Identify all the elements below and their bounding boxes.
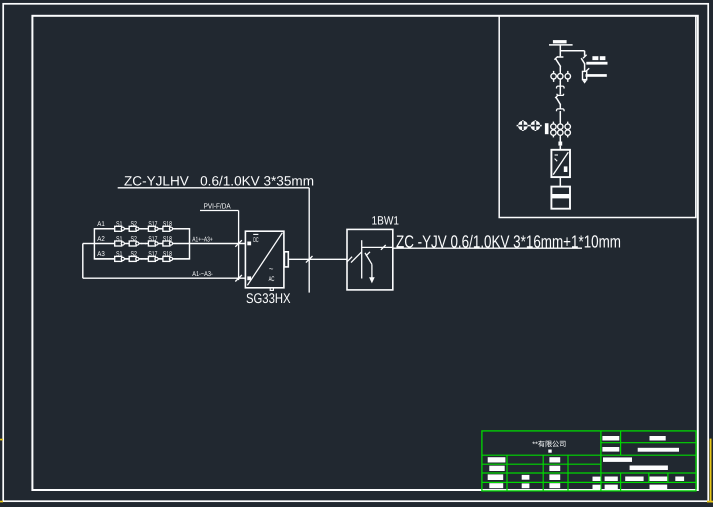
svg-text:S2: S2 (130, 221, 137, 228)
svg-text:S17: S17 (148, 236, 157, 243)
svg-text:A1-~A3-: A1-~A3- (192, 271, 213, 278)
svg-text:1BW1: 1BW1 (372, 213, 400, 227)
svg-text:A2: A2 (97, 236, 105, 243)
svg-text:~: ~ (269, 265, 274, 274)
svg-text:A3: A3 (97, 251, 105, 258)
svg-text:ZC-YJLHV 0.6/1.0KV 3*35mm: ZC-YJLHV 0.6/1.0KV 3*35mm (124, 174, 314, 189)
svg-text:S18: S18 (163, 236, 172, 243)
svg-text:S2: S2 (130, 251, 137, 258)
svg-text:S18: S18 (163, 251, 172, 258)
svg-text:S18: S18 (163, 221, 172, 228)
svg-text:PVI-F/DA: PVI-F/DA (204, 201, 231, 210)
svg-text:S17: S17 (148, 251, 157, 258)
svg-text:A1+~A3+: A1+~A3+ (192, 236, 213, 243)
svg-text:A1: A1 (97, 221, 105, 228)
svg-text:AC: AC (269, 276, 275, 283)
svg-text:S1: S1 (116, 221, 123, 228)
svg-text:S2: S2 (130, 236, 137, 243)
svg-text:S1: S1 (116, 236, 123, 243)
svg-text:S1: S1 (116, 251, 123, 258)
svg-text:SG33HX: SG33HX (246, 290, 291, 306)
svg-text:ZC -YJV 0.6/1.0KV 3*16mm+1*10m: ZC -YJV 0.6/1.0KV 3*16mm+1*10mm (396, 231, 621, 251)
svg-text:**有限公司: **有限公司 (532, 440, 566, 449)
svg-text:DC: DC (253, 237, 258, 244)
svg-text:S17: S17 (148, 221, 157, 228)
